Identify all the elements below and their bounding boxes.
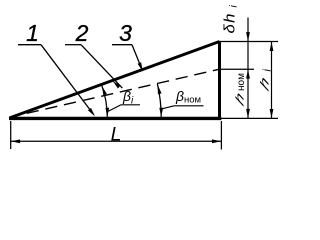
base surface (thick bottom line) — [9, 117, 221, 120]
hypotenuse: actual inclined surface (thick) — [10, 42, 220, 118]
left extension line for L — [10, 121, 12, 149]
svg-text:h: h — [258, 73, 271, 94]
svg-text:βi: βi — [122, 88, 134, 106]
nominal profile (dashed line) — [11, 69, 220, 117]
extension line from top corner to the right — [220, 41, 279, 43]
angle arc beta_nom (base to dashed nominal line) — [157, 84, 161, 118]
dimension line L — [11, 140, 222, 142]
extension line at nominal height — [220, 68, 255, 70]
right edge of wedge (thick) — [218, 41, 221, 120]
svg-text:2: 2 — [75, 20, 89, 46]
angle arc beta_i (base to hypotenuse) — [102, 85, 108, 118]
extension line from base to the right — [221, 117, 278, 119]
label h_i (rotated) — [258, 69, 274, 95]
label h_nom (rotated) — [233, 73, 247, 109]
svg-text:βном: βном — [175, 88, 201, 106]
right extension line for L — [220, 121, 222, 150]
label delta-h_i (rotated) — [222, 5, 239, 34]
svg-text:i: i — [228, 5, 240, 8]
svg-text:L: L — [111, 123, 122, 145]
svg-text:δh: δh — [222, 12, 238, 33]
dimension line h_i (vertical at x=271.5) — [271, 42, 273, 119]
svg-text:3: 3 — [119, 20, 132, 46]
dimension line delta-h_i / h_nom (vertical at x=248) — [247, 18, 249, 119]
svg-text:ном: ном — [236, 73, 247, 91]
svg-text:1: 1 — [26, 20, 39, 46]
